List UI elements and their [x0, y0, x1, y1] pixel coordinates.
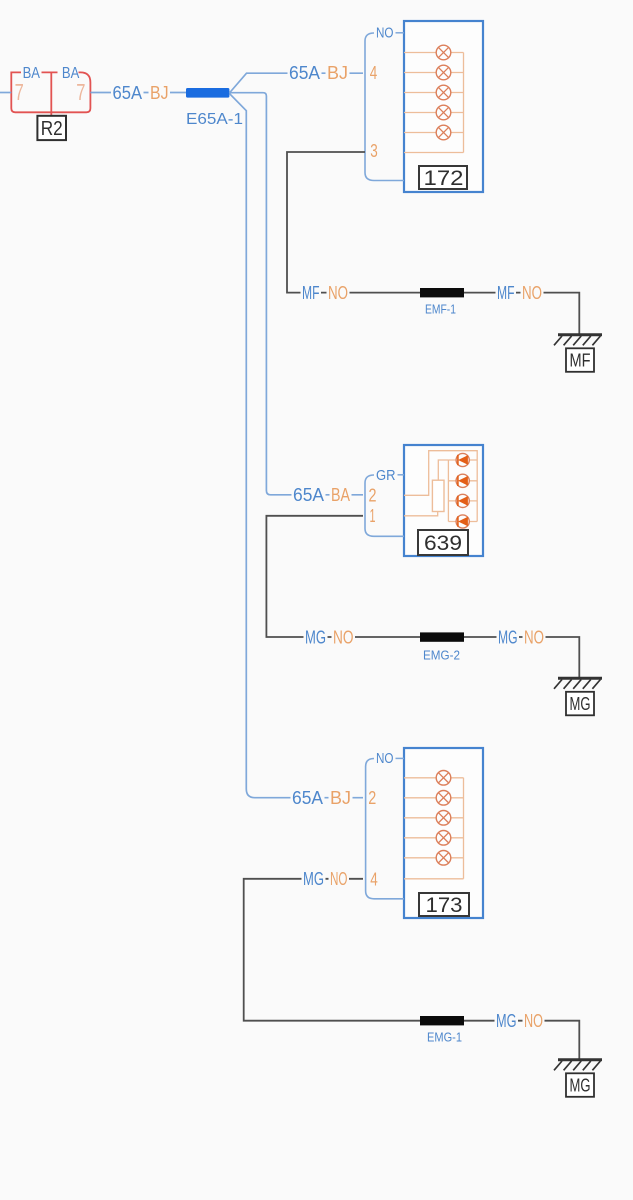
lamp in 173 at y=817.8: [436, 811, 451, 826]
svg-text:4: 4: [370, 63, 378, 83]
wire label NO at 173 pin 4: [329, 870, 350, 887]
wire label MG (right of EMG-1): [495, 1012, 519, 1029]
svg-text:GR: GR: [376, 467, 396, 484]
wire into R2 from left edge: [0, 92, 11, 94]
lamp in 172 at y=112.5: [436, 105, 451, 120]
svg-text:E65A-1: E65A-1: [186, 111, 243, 128]
connector R2 red outline: [11, 72, 90, 112]
ground symbol MF: [558, 333, 602, 336]
ground code box MF: [566, 348, 594, 372]
svg-text:3: 3: [370, 141, 378, 161]
svg-text:NO: NO: [330, 869, 348, 889]
svg-text:65A: 65A: [289, 63, 320, 83]
svg-text:MG: MG: [496, 1011, 517, 1031]
svg-text:2: 2: [369, 486, 377, 506]
svg-text:NO: NO: [376, 750, 394, 767]
LED in 639 at y=521.5: [456, 515, 469, 528]
svg-text:NO: NO: [328, 283, 348, 303]
wire EMF-1 to ground MF: [464, 293, 579, 334]
svg-text:NO: NO: [333, 627, 354, 647]
svg-text:65A: 65A: [293, 485, 324, 505]
svg-text:MG: MG: [305, 627, 326, 647]
connector bracket of 172: [365, 33, 404, 181]
wire label NO (right of EMG-2): [523, 628, 546, 645]
svg-text:MF: MF: [497, 283, 515, 303]
LED in 639 at y=460: [456, 453, 469, 466]
wire 172 pin 3 to EMF-1: [287, 152, 420, 293]
svg-text:172: 172: [424, 166, 464, 190]
lamp in 172 at y=92.5: [436, 85, 451, 100]
svg-text:65A: 65A: [113, 83, 143, 103]
svg-text:R2: R2: [41, 118, 63, 140]
wire label NO (right of EMF-1): [521, 284, 544, 301]
ground code box MG: [566, 692, 594, 716]
svg-text:639: 639: [424, 531, 462, 555]
svg-text:2: 2: [368, 788, 376, 808]
172 internal lamp circuit: [404, 53, 464, 153]
unit 173 outline: [404, 748, 483, 918]
svg-text:MF: MF: [570, 350, 591, 370]
LED in 639 at y=480.8: [456, 474, 469, 487]
173 internal lamp circuit: [404, 778, 464, 879]
wire label NO (right of EMG-1): [523, 1012, 545, 1029]
svg-text:BA: BA: [23, 65, 41, 82]
splice EMG-1: [420, 1016, 464, 1025]
resistor in 639: [432, 480, 444, 511]
svg-text:NO: NO: [524, 1011, 543, 1031]
wire 639 pin 1 to EMG-2: [266, 516, 420, 637]
ground symbol MG-1: [558, 1058, 602, 1061]
svg-text:65A: 65A: [292, 788, 323, 808]
ground code box MG: [566, 1073, 594, 1097]
svg-text:4: 4: [370, 870, 378, 890]
svg-text:MG: MG: [570, 1075, 591, 1095]
wire label MG (right of EMG-2): [497, 628, 520, 645]
lamp in 172 at y=52.5: [436, 45, 451, 60]
R2 designator box: [37, 116, 66, 140]
wire label MF (left of EMF-1): [301, 284, 322, 301]
wire label NO (left of EMG-2): [332, 628, 356, 645]
wire label BJ (orange): [149, 84, 171, 101]
173 designator box: [419, 893, 469, 916]
svg-text:NO: NO: [524, 627, 544, 647]
svg-text:BJ: BJ: [150, 83, 169, 103]
wire label MG at 173 pin 4: [302, 870, 326, 887]
svg-text:BJ: BJ: [327, 63, 348, 83]
LED in 639 at y=500.9: [456, 494, 469, 507]
wire EMG-1 to ground MG: [464, 1021, 579, 1060]
lamp in 172 at y=132.5: [436, 125, 451, 140]
svg-text:173: 173: [426, 893, 463, 917]
svg-text:MF: MF: [302, 283, 320, 303]
ground symbol MG-2: [558, 677, 602, 680]
svg-text:7: 7: [15, 79, 24, 105]
svg-text:7: 7: [76, 79, 85, 105]
wire label 65A to 173: [291, 789, 325, 806]
lamp in 173 at y=837.8: [436, 831, 451, 846]
639 designator box: [418, 530, 468, 555]
wire 173 pin 4 to EMG-1: [244, 879, 420, 1021]
connector bracket of 173: [366, 759, 404, 899]
unit 639 outline: [404, 445, 483, 556]
639 internal circuit wires: [404, 451, 477, 522]
connector R2 center divider: [42, 72, 58, 115]
svg-text:EMG-2: EMG-2: [423, 648, 460, 663]
svg-text:NO: NO: [376, 24, 394, 41]
lamp in 173 at y=797.8: [436, 791, 451, 806]
svg-text:NO: NO: [522, 283, 542, 303]
wire splice to 173 pin 2: [229, 94, 363, 798]
svg-text:BJ: BJ: [330, 788, 351, 808]
svg-text:BA: BA: [331, 485, 350, 505]
splice E65A-1: [186, 88, 229, 98]
lamp in 173 at y=777.8: [436, 771, 451, 786]
wire label BJ to 173: [329, 789, 353, 806]
lamp in 173 at y=857.8: [436, 851, 451, 866]
svg-text:MG: MG: [498, 627, 518, 647]
wire label MF (right of EMF-1): [496, 284, 517, 301]
svg-text:EMG-1: EMG-1: [427, 1030, 462, 1045]
svg-text:1: 1: [370, 506, 376, 526]
172 designator box: [419, 166, 467, 189]
wire label NO (left of EMF-1): [327, 284, 350, 301]
svg-text:MG: MG: [570, 694, 591, 714]
wire label 65A to 172: [288, 64, 322, 81]
wire splice to 172 pin 4: [229, 73, 363, 93]
splice EMG-2: [420, 632, 464, 641]
wire splice to 639 pin 2: [229, 93, 363, 495]
wire label BA to 639: [330, 486, 352, 503]
wire label BJ to 172: [326, 64, 350, 81]
wire label 65A to 639: [292, 486, 326, 503]
wire label MG (left of EMG-2): [304, 628, 328, 645]
unit 172 outline: [404, 21, 483, 192]
wire label 65A (blue): [111, 84, 144, 101]
svg-text:EMF-1: EMF-1: [425, 302, 456, 317]
connector bracket of 639: [365, 475, 404, 536]
wire R2 to splice E65A-1: [90, 92, 186, 94]
lamp in 172 at y=72.5: [436, 65, 451, 80]
splice EMF-1: [420, 288, 464, 297]
svg-text:MG: MG: [303, 869, 324, 889]
wire EMG-2 to ground MG: [464, 637, 579, 678]
